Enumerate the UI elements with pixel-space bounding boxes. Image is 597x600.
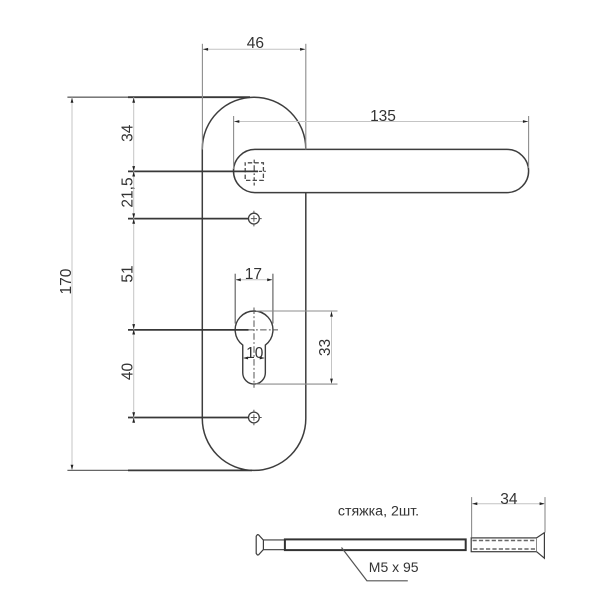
inner column arrows <box>132 98 135 423</box>
leader line to bottom screw hole <box>128 417 248 419</box>
dimension 10 arrows <box>243 357 247 359</box>
dimension 34 (sleeve) line <box>472 503 545 505</box>
spindle horizontal centerline <box>259 170 268 172</box>
sleeve countersunk head <box>537 533 545 559</box>
svg-text:стяжка, 2шт.: стяжка, 2шт. <box>338 504 419 520</box>
spindle vertical centerline <box>253 160 255 186</box>
inner dimension column line <box>133 97 135 421</box>
screw hole bottom center mark <box>246 410 262 426</box>
screw threaded rod <box>285 539 466 550</box>
dimension 135 arrows <box>234 120 239 123</box>
cylinder vertical centerline <box>253 308 255 388</box>
dimension 17 line <box>236 279 273 281</box>
leader line to cylinder center <box>128 329 249 331</box>
svg-text:10: 10 <box>246 345 264 362</box>
screw hole bottom <box>249 412 260 423</box>
dimension 33 line <box>331 311 333 383</box>
leader line to spindle center <box>128 170 258 172</box>
screw shank <box>263 539 285 541</box>
dimension 17 extension lines <box>234 274 236 324</box>
screw hole top center mark <box>246 211 262 227</box>
sleeve thread hatch bottom <box>473 548 536 550</box>
leader line M5x95 <box>342 548 408 581</box>
dimension 46 arrows <box>203 48 208 51</box>
dimension 17 arrows <box>236 278 241 281</box>
cylinder horizontal centerline <box>234 329 278 331</box>
svg-text:34: 34 <box>500 491 518 508</box>
handle lever outline <box>234 149 529 192</box>
svg-text:46: 46 <box>247 35 264 52</box>
dimension 46 extension lines <box>201 44 203 150</box>
plate outline <box>202 97 305 470</box>
dimension 33 extension lines <box>256 310 338 312</box>
svg-text:135: 135 <box>370 108 396 125</box>
svg-text:40: 40 <box>120 363 137 381</box>
dimension 34 (sleeve) arrows <box>472 502 477 505</box>
leader line to top screw hole <box>128 218 248 220</box>
svg-text:34: 34 <box>120 124 137 142</box>
svg-text:21,5: 21,5 <box>120 177 137 207</box>
svg-text:170: 170 <box>58 268 75 294</box>
dimension 135 extension lines <box>233 116 235 169</box>
screw head (countersunk) <box>256 535 263 555</box>
svg-text:33: 33 <box>317 339 334 356</box>
sleeve barrel <box>471 538 536 552</box>
sleeve thread hatch top <box>473 540 536 542</box>
leader line to top of plate <box>67 96 131 98</box>
euro cylinder keyhole <box>235 311 273 384</box>
dimension 46 line <box>203 48 305 50</box>
leader line to bottom of plate <box>67 469 131 471</box>
dimension 34 (sleeve) extension lines <box>471 497 473 537</box>
dimension 135 line <box>234 121 528 123</box>
svg-text:51: 51 <box>120 265 137 282</box>
dimension 170 arrows <box>71 98 74 103</box>
dimension 170 line <box>71 98 73 471</box>
svg-text:M5 x 95: M5 x 95 <box>369 559 419 575</box>
spindle square (dashed) <box>245 163 263 181</box>
dimension 33 arrows <box>330 311 333 316</box>
screw hole top <box>249 213 260 224</box>
svg-text:17: 17 <box>245 266 262 283</box>
